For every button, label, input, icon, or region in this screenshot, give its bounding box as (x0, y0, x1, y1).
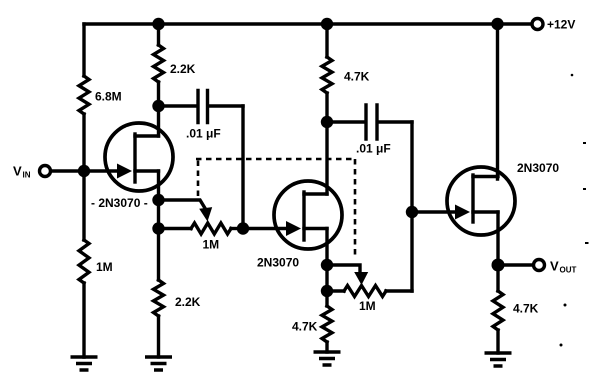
power terminal +12V (532, 19, 543, 30)
node Q3 gate junction dot (406, 206, 418, 218)
svg-text:2.2K: 2.2K (175, 295, 201, 309)
wire node C to node D (325, 265, 328, 291)
junction dot rail/stage1 (152, 18, 164, 30)
wire Vin node to Q1 gate (84, 169, 118, 172)
wire node D to pot P2 (327, 289, 344, 292)
svg-text:OUT: OUT (560, 266, 577, 275)
svg-text:2.2K: 2.2K (170, 62, 196, 76)
wire 4.7K to ground (325, 342, 328, 352)
wire cap C1 corner down to pot node (241, 106, 244, 229)
potentiometer P1 1M (191, 223, 231, 234)
ground G2 (145, 357, 172, 370)
svg-text:.01 μF: .01 μF (356, 142, 391, 156)
pot P1 wiper arrow (199, 207, 212, 221)
wire Vin terminal to node (51, 169, 84, 172)
wire Q1 source down to node A (157, 171, 160, 200)
node D junction dot (321, 285, 333, 297)
junction dot rail/stage3 (491, 18, 503, 30)
svg-text:V: V (550, 259, 559, 274)
wire gate node to Q3 gate (412, 210, 456, 213)
transistor Q2 2N3070 JFET (274, 181, 342, 249)
wire Vout node to terminal (498, 263, 533, 266)
dashed gang link top run (196, 158, 355, 161)
wire top supply rail (84, 22, 531, 25)
dashed gang link left riser (197, 160, 200, 196)
node B junction dot (152, 222, 164, 234)
node Vin junction dot (78, 165, 90, 177)
wire node to Q2 gate (243, 227, 287, 230)
input terminal Vin (40, 166, 51, 177)
wire node A to pot wiper arm (159, 200, 206, 209)
wire 2.2K to drain node (157, 82, 160, 106)
wire Vout node to 4.7K (496, 265, 499, 291)
wire node A to node B (157, 200, 160, 229)
svg-text:4.7K: 4.7K (292, 320, 318, 334)
wire 4.7K to drain node 2 (325, 93, 328, 122)
svg-text:1M: 1M (359, 299, 376, 313)
resistor R6 4.7K (322, 306, 332, 342)
pot P2 wiper arrow (354, 272, 368, 285)
svg-text:.01 μF: .01 μF (186, 127, 221, 141)
node drain1/cap1 junction dot (152, 100, 164, 112)
wire node B to pot P1 (159, 227, 192, 230)
ground G1 (71, 357, 98, 370)
dashed gang link right riser (354, 159, 357, 258)
wire node B down to 2.2K (157, 229, 160, 281)
wire 6.8M to Vin node (82, 114, 85, 171)
wire node D down to 4.7K (325, 291, 328, 306)
wire cap C2 to corner (379, 120, 412, 123)
wire rail to Q3 drain (496, 24, 499, 179)
resistor R7 4.7K (493, 291, 503, 330)
wire cap C1 to corner (210, 104, 244, 107)
wire cap C2 corner down to pot P2 (410, 122, 413, 291)
wire drain node into Q2 drain (325, 122, 328, 194)
svg-text:1M: 1M (96, 260, 113, 274)
capacitor C2 .01 uF (366, 105, 377, 139)
wire left branch top (rail to 6.8M) (82, 24, 85, 76)
svg-text:+12V: +12V (547, 18, 575, 32)
wire node C to pot2 wiper arm (327, 265, 360, 271)
resistor R4 2.2K (154, 280, 164, 316)
ground G4 (485, 353, 512, 366)
transistor Q3 2N3070 JFET (447, 167, 515, 235)
potentiometer P2 1M (344, 286, 386, 297)
wire drain node to cap C1 (159, 104, 197, 107)
wire drain node 2 to cap C2 (327, 120, 364, 123)
wire P1 to cap node (231, 227, 243, 230)
svg-text:IN: IN (23, 171, 31, 180)
wire 2.2K to ground (157, 316, 160, 357)
wire drain node into Q1 drain (157, 106, 160, 136)
node C junction dot (321, 259, 333, 271)
wire 1M to ground (82, 283, 85, 357)
wire Q3 source down to Vout node (496, 212, 499, 265)
wire P2 right end to riser (386, 289, 412, 292)
speck marks (571, 74, 574, 77)
resistor R2 1M (79, 240, 89, 283)
svg-text:6.8M: 6.8M (95, 90, 122, 104)
node drain2/cap2 junction dot (321, 116, 333, 128)
svg-text:4.7K: 4.7K (513, 302, 539, 316)
resistor R1 6.8M (79, 76, 89, 114)
svg-text:V: V (13, 164, 22, 179)
node cap1/pot junction dot (237, 222, 249, 234)
transistor Q1 2N3070 JFET (105, 123, 173, 191)
wire rail to 2.2K (157, 24, 160, 45)
wire 4.7K to ground (496, 330, 499, 353)
output terminal Vout (534, 260, 545, 271)
svg-text:- 2N3070 -: - 2N3070 - (91, 196, 148, 210)
resistor R3 2.2K (154, 45, 164, 82)
junction dot rail/stage2 (321, 18, 333, 30)
svg-text:2N3070: 2N3070 (257, 256, 299, 270)
node A junction dot (152, 194, 164, 206)
svg-text:2N3070: 2N3070 (517, 161, 559, 175)
capacitor C1 .01 uF (198, 91, 208, 123)
wire Vin node to 1M (82, 171, 85, 240)
wire rail to 4.7K (325, 24, 328, 57)
ground G3 (314, 352, 341, 365)
svg-text:1M: 1M (203, 238, 220, 252)
node Vout junction dot (492, 259, 505, 272)
resistor R5 4.7K (322, 57, 332, 93)
wire Q2 source down to node C (325, 229, 328, 266)
svg-text:4.7K: 4.7K (344, 70, 370, 84)
